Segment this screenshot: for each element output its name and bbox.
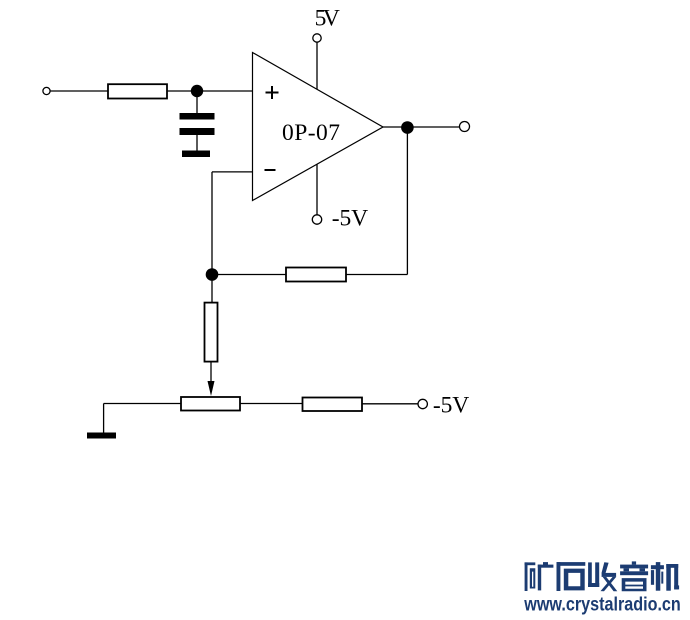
svg-text:-5V: -5V — [332, 206, 368, 232]
svg-text:-5V: -5V — [433, 393, 469, 419]
svg-text:5V: 5V — [315, 6, 340, 32]
svg-text:0P-07: 0P-07 — [282, 120, 340, 146]
svg-text:www.crystalradio.cn: www.crystalradio.cn — [523, 595, 680, 616]
